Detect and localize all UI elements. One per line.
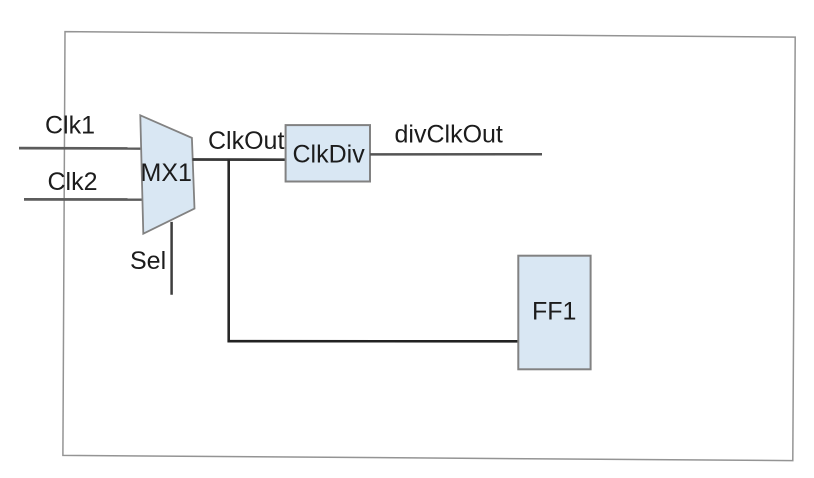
wire Clk2 input	[24, 198, 143, 201]
svg-text:Clk1: Clk1	[45, 112, 95, 140]
svg-text:Sel: Sel	[130, 247, 166, 275]
wire branch to FF1 (horizontal)	[228, 340, 518, 343]
block ClkDiv	[286, 125, 370, 181]
svg-text:ClkOut: ClkOut	[208, 127, 284, 155]
svg-text:MX1: MX1	[141, 159, 192, 187]
svg-text:FF1: FF1	[532, 298, 576, 326]
svg-text:Clk2: Clk2	[48, 168, 98, 196]
wire Sel input	[170, 222, 173, 295]
wire ClkOut	[193, 158, 286, 161]
wire divClkOut	[370, 153, 542, 156]
svg-text:divClkOut: divClkOut	[395, 120, 503, 148]
wire Clk1 input	[19, 147, 142, 150]
block FF1	[518, 256, 590, 370]
mux MX1	[140, 115, 194, 233]
svg-text:ClkDiv: ClkDiv	[293, 141, 366, 169]
wire junction branch down to FF1 (vertical)	[227, 160, 230, 343]
